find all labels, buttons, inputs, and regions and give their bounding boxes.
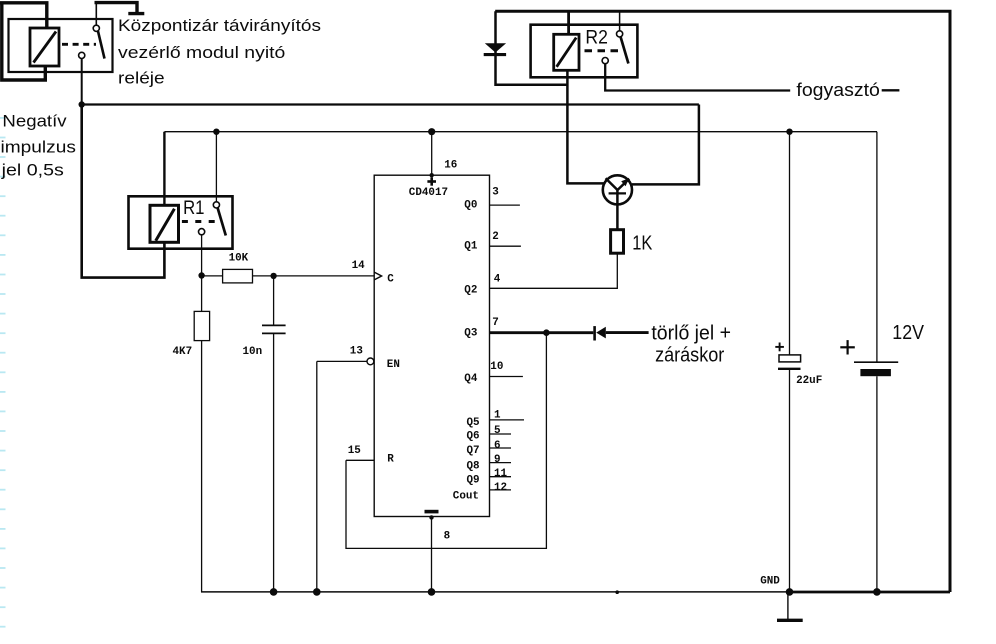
wire R2 common up — [619, 11, 621, 31]
wire reset loop to Q3 — [346, 333, 546, 549]
svg-text:1K: 1K — [632, 231, 652, 254]
pin Q0 stub — [490, 204, 520, 206]
transistor arrow — [621, 178, 629, 186]
svg-text:9: 9 — [494, 454, 501, 466]
wire battery to bottom rail — [876, 376, 878, 592]
svg-text:8: 8 — [444, 530, 451, 542]
svg-text:4K7: 4K7 — [173, 346, 193, 358]
svg-text:GND: GND — [760, 575, 780, 587]
svg-text:Q8: Q8 — [467, 461, 480, 473]
svg-text:EN: EN — [387, 359, 400, 371]
pin Q1 stub — [490, 245, 521, 247]
svg-text:3: 3 — [492, 187, 499, 199]
ground symbol bar — [777, 619, 803, 622]
svg-text:2: 2 — [492, 231, 499, 243]
transistor Q1 body — [603, 175, 632, 204]
wire 22uF to bottom rail — [789, 369, 791, 592]
wire top rail and right edge — [495, 11, 950, 592]
svg-text:14: 14 — [352, 260, 366, 272]
relay R2 coil — [554, 34, 579, 70]
pin Q9 stub — [490, 476, 512, 478]
node D junction (22uF) — [786, 129, 792, 135]
battery top plate — [854, 361, 898, 363]
wire K1 common up — [95, 3, 97, 26]
wire fogyasztó right dash — [882, 89, 900, 91]
wire R2 coil top — [567, 11, 570, 34]
svg-text:Q4: Q4 — [464, 373, 478, 385]
node G junction Q3 — [543, 329, 550, 336]
wire node D to 22uF — [789, 132, 791, 355]
wire flyback diode branch — [496, 11, 568, 84]
wire node E to 4K7 — [201, 276, 203, 312]
resistor 4K7 — [194, 311, 209, 340]
svg-text:6: 6 — [494, 440, 501, 452]
node pin8 dot — [429, 515, 433, 519]
svg-text:10: 10 — [490, 361, 503, 373]
wire bottom rail — [201, 591, 790, 593]
resistor 10K — [223, 269, 253, 283]
wire pin8 — [431, 517, 433, 592]
node bottom EN — [313, 588, 321, 596]
svg-text:1: 1 — [494, 409, 501, 421]
wire R1 contact down — [201, 235, 203, 276]
wire pin15 R — [346, 459, 374, 461]
svg-text:Q7: Q7 — [467, 445, 480, 457]
transistor emitter wire — [616, 190, 619, 229]
op IC U1 CD4017 box — [374, 175, 489, 516]
svg-text:Q3: Q3 — [464, 327, 477, 339]
wire R1 coil bottom loop — [82, 105, 165, 278]
wire bottom rail thick segment — [790, 591, 951, 594]
IC plus mark (pin16) — [427, 177, 436, 185]
node E junction — [198, 272, 204, 278]
pin Q5 stub — [490, 419, 525, 421]
svg-text:7: 7 — [492, 317, 499, 329]
svg-text:záráskor: záráskor — [655, 344, 725, 366]
wire EN to bottom rail — [316, 361, 318, 592]
pin Q4 stub — [490, 376, 523, 378]
wire pin16 — [431, 132, 433, 176]
wire 4K7 to bottom rail — [201, 341, 203, 592]
svg-text:Q0: Q0 — [464, 200, 477, 212]
node bottom 22uF — [786, 588, 794, 596]
svg-text:Q6: Q6 — [467, 431, 480, 443]
relay R2 lever — [621, 37, 629, 64]
node bottom 10n — [270, 588, 278, 596]
svg-text:fogyasztó: fogyasztó — [796, 80, 879, 100]
wire rail vcc (y131) — [164, 131, 877, 133]
relay R2 box — [531, 25, 638, 78]
wire R2 contact to fogyasztó — [605, 64, 790, 91]
svg-text:13: 13 — [350, 345, 363, 357]
relay R1 dashed link — [182, 220, 216, 223]
transistor bar — [609, 192, 626, 194]
relay R1 contact bottom — [199, 229, 205, 235]
notebook margin ticks (cyan) — [0, 118, 6, 627]
wire top terminal — [95, 3, 138, 12]
svg-text:reléje: reléje — [118, 69, 165, 88]
transistor Q collector wire — [567, 70, 604, 183]
svg-text:12: 12 — [494, 482, 507, 494]
wire 10K to node F — [253, 275, 274, 277]
node A junction — [79, 101, 85, 107]
wire node F to 10n — [273, 276, 275, 326]
wire rail corner to battery — [876, 132, 878, 363]
diode D1 cathode bar — [484, 53, 506, 56]
svg-text:Q2: Q2 — [464, 284, 477, 296]
diode D2 triangle — [596, 327, 606, 339]
svg-text:15: 15 — [348, 445, 361, 457]
diode D1 flyback triangle — [485, 43, 506, 52]
transistor Q base wire — [632, 105, 699, 185]
node B junction — [213, 129, 219, 135]
capacitor 22uF bottom plate — [778, 368, 801, 370]
svg-text:Q1: Q1 — [464, 241, 478, 253]
relay R2 contact top — [617, 31, 623, 37]
wire to 10K — [202, 275, 223, 277]
relay R2 dashed link — [585, 49, 619, 52]
svg-text:Q9: Q9 — [467, 475, 480, 487]
node bottom pin8 — [428, 588, 436, 596]
battery plus mark — [840, 340, 855, 354]
node pin16 dot — [430, 173, 434, 177]
svg-text:vezérlő modul nyitó: vezérlő modul nyitó — [118, 42, 285, 62]
svg-text:jel 0,5s: jel 0,5s — [1, 160, 64, 179]
capacitor 10n — [262, 325, 286, 333]
wire diode to text — [606, 331, 649, 334]
relay K1 switch lever — [98, 31, 105, 58]
capacitor 22uF plus mark — [775, 343, 784, 352]
svg-text:Negatív: Negatív — [2, 111, 66, 130]
svg-text:10n: 10n — [243, 346, 263, 358]
transistor arms — [606, 178, 630, 190]
relay K1 switch contact bottom — [79, 52, 85, 58]
svg-text:törlő jel +: törlő jel + — [651, 322, 731, 345]
pin Q6 stub — [490, 433, 512, 435]
wire 10n to bottom rail — [273, 333, 275, 592]
svg-text:16: 16 — [444, 159, 457, 171]
pin EN circle — [367, 358, 374, 365]
relay R2 contact bottom — [602, 58, 608, 64]
pin Q7 stub — [490, 447, 512, 449]
svg-text:Q5: Q5 — [467, 417, 480, 429]
pin C clock arrow — [374, 272, 381, 280]
svg-text:11: 11 — [494, 468, 508, 480]
pin Cout stub — [490, 489, 512, 491]
svg-text:22uF: 22uF — [796, 375, 822, 387]
wire R1 common up — [215, 132, 217, 202]
ground symbol stub — [787, 592, 789, 621]
battery bottom plate — [860, 369, 891, 376]
IC minus mark (pin8) — [425, 510, 439, 514]
node bottom small — [615, 590, 619, 594]
diode D2 (törlő jel) cathode bar — [593, 326, 596, 340]
svg-text:10K: 10K — [229, 252, 249, 264]
wire rail signal (y104) — [82, 103, 699, 105]
svg-text:R1: R1 — [183, 197, 204, 218]
terminal bar — [128, 12, 144, 15]
wire pin13 — [317, 360, 367, 362]
relay R1 box — [129, 196, 233, 248]
svg-text:4: 4 — [494, 273, 501, 285]
wire R1 coil top up — [163, 132, 165, 206]
wire K1 NC contact down — [81, 59, 83, 105]
pin Q2 stub wire to 1K — [490, 253, 618, 288]
svg-text:5: 5 — [494, 425, 501, 437]
pin Q3 stub thick — [490, 331, 547, 334]
node F junction — [270, 273, 276, 279]
relay K1 switch contact top — [93, 25, 99, 31]
svg-text:12V: 12V — [892, 322, 924, 344]
wire K1 coil loop — [0, 3, 47, 80]
relay R1 lever — [218, 208, 226, 236]
svg-text:Központizár távirányítós: Központizár távirányítós — [118, 16, 321, 35]
svg-text:CD4017: CD4017 — [409, 187, 448, 199]
relay K1 (central lock relay) box — [9, 19, 113, 72]
relay K1 coil — [30, 28, 59, 66]
resistor 1K — [611, 230, 624, 254]
relay R1 coil — [150, 205, 179, 242]
node bottom battery — [873, 588, 881, 596]
wire node F to pin14 — [274, 275, 375, 277]
svg-text:R2: R2 — [585, 26, 607, 48]
svg-text:Cout: Cout — [453, 490, 479, 502]
node C junction (pin16) — [428, 128, 435, 135]
relay R1 contact top — [213, 202, 219, 208]
svg-text:impulzus: impulzus — [1, 137, 76, 156]
relay K1 dashed link — [62, 43, 96, 46]
svg-text:C: C — [387, 274, 394, 286]
svg-text:R: R — [387, 454, 394, 466]
capacitor 22uF top plate — [779, 355, 801, 362]
pin Q8 stub — [490, 462, 512, 464]
wire Q3 to diode — [546, 331, 593, 334]
